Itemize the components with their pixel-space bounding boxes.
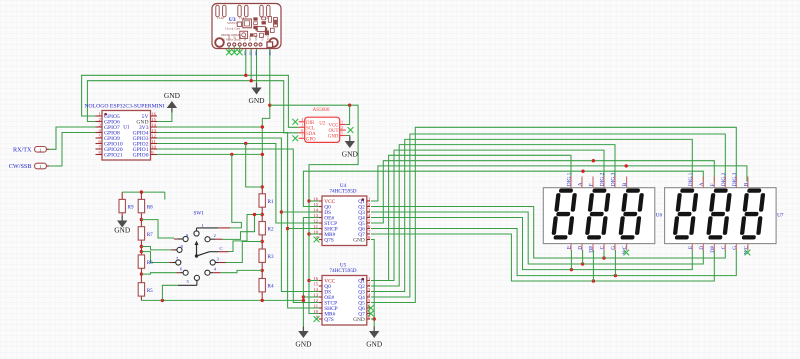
svg-text:R2: R2 — [268, 227, 274, 233]
svg-text:10: 10 — [151, 144, 156, 149]
svg-text:RX/TX: RX/TX — [13, 147, 32, 154]
svg-text:CLK0: CLK0 — [228, 34, 231, 41]
svg-text:12: 12 — [151, 133, 156, 138]
svg-text:NOLOGO ESP32C3-SUPERMINI: NOLOGO ESP32C3-SUPERMINI — [84, 104, 164, 110]
svg-text:GND: GND — [295, 340, 312, 349]
svg-text:12: 12 — [313, 298, 318, 303]
svg-text:SDA: SDA — [306, 132, 316, 137]
svg-text:SCL: SCL — [306, 126, 315, 131]
svg-text:D: D — [699, 246, 705, 250]
svg-text:DIG.2: DIG.2 — [600, 172, 606, 186]
svg-text:B: B — [744, 182, 750, 186]
svg-text:5: 5 — [341, 131, 343, 136]
svg-text:14: 14 — [313, 207, 318, 212]
svg-text:R5: R5 — [147, 288, 153, 294]
svg-text:G: G — [732, 246, 738, 250]
svg-text:R1: R1 — [268, 199, 274, 205]
svg-text:DIG.2: DIG.2 — [721, 172, 727, 186]
svg-text:SW1: SW1 — [194, 211, 205, 217]
svg-text:VCC: VCC — [329, 124, 339, 129]
svg-text:VCC: VCC — [262, 35, 265, 41]
svg-text:GND: GND — [248, 96, 265, 105]
svg-text:7: 7 — [301, 134, 303, 139]
svg-text:10: 10 — [313, 229, 318, 234]
svg-text:Si5351: Si5351 — [227, 21, 237, 25]
svg-text:14: 14 — [313, 287, 318, 292]
svg-text:D: D — [578, 246, 584, 250]
svg-text:15: 15 — [313, 202, 318, 207]
svg-text:F: F — [589, 183, 595, 186]
svg-text:OUT: OUT — [329, 129, 339, 134]
svg-text:DIG.1: DIG.1 — [688, 172, 694, 186]
svg-text:1: 1 — [39, 147, 41, 152]
svg-text:74HCT595D: 74HCT595D — [329, 268, 356, 274]
svg-text:DIR: DIR — [306, 121, 315, 126]
svg-text:GPIO0: GPIO0 — [133, 153, 149, 159]
svg-text:16: 16 — [313, 276, 318, 281]
svg-text:6: 6 — [301, 128, 303, 133]
svg-text:74HCT595D: 74HCT595D — [329, 188, 356, 194]
svg-text:CLK1: CLK1 — [233, 34, 236, 41]
svg-text:SCL: SCL — [244, 36, 247, 41]
svg-text:R6: R6 — [147, 260, 153, 266]
svg-text:10: 10 — [313, 309, 318, 314]
svg-text:F: F — [710, 183, 716, 186]
svg-text:R8: R8 — [147, 205, 153, 211]
svg-text:GND: GND — [353, 317, 365, 323]
svg-text:A: A — [578, 182, 584, 186]
svg-text:R4: R4 — [268, 284, 274, 290]
svg-text:3V3: 3V3 — [267, 36, 270, 41]
svg-text:U7: U7 — [777, 213, 784, 219]
svg-text:SDA: SDA — [269, 50, 272, 55]
svg-text:CLK0: CLK0 — [217, 17, 225, 20]
svg-text:GND: GND — [353, 238, 365, 244]
svg-text:GND: GND — [328, 135, 339, 140]
svg-text:C: C — [721, 245, 727, 249]
svg-text:11: 11 — [314, 303, 319, 308]
svg-text:GND: GND — [164, 91, 181, 100]
svg-text:1: 1 — [39, 164, 41, 169]
svg-text:13: 13 — [313, 213, 318, 218]
svg-text:DP: DP — [710, 246, 716, 253]
svg-text:11: 11 — [151, 139, 156, 144]
svg-text:3: 3 — [301, 123, 303, 128]
svg-text:DIG.3: DIG.3 — [611, 172, 617, 186]
svg-text:U1: U1 — [123, 125, 130, 131]
svg-text:12: 12 — [313, 218, 318, 223]
svg-text:GPO: GPO — [306, 137, 316, 142]
svg-text:16: 16 — [313, 196, 318, 201]
svg-text:SDA: SDA — [244, 50, 247, 55]
svg-text:DP: DP — [589, 246, 595, 253]
svg-text:C: C — [600, 245, 606, 249]
svg-text:1: 1 — [341, 120, 343, 125]
svg-text:DIG.3: DIG.3 — [732, 172, 738, 186]
svg-text:DIG.1: DIG.1 — [567, 172, 573, 186]
svg-text:GND: GND — [342, 150, 359, 159]
svg-text:Q7S: Q7S — [324, 238, 334, 244]
svg-text:2: 2 — [341, 125, 343, 130]
svg-text:R9: R9 — [128, 205, 134, 211]
svg-text:SDA: SDA — [255, 50, 258, 55]
svg-text:SDA: SDA — [249, 35, 252, 40]
svg-text:GPIO21: GPIO21 — [104, 153, 123, 159]
svg-text:U2: U2 — [319, 122, 326, 127]
svg-text:G: G — [611, 246, 617, 250]
svg-text:14: 14 — [151, 122, 156, 127]
svg-text:Clock Gen: Clock Gen — [225, 27, 240, 31]
svg-text:11: 11 — [314, 224, 319, 229]
svg-text:15: 15 — [313, 281, 318, 286]
svg-text:R7: R7 — [147, 232, 153, 238]
svg-text:13: 13 — [313, 292, 318, 297]
svg-text:GND: GND — [366, 340, 383, 349]
svg-text:CLK2: CLK2 — [239, 34, 242, 41]
svg-text:15: 15 — [151, 117, 156, 122]
svg-text:GND: GND — [255, 35, 258, 41]
svg-text:Q7S: Q7S — [324, 317, 334, 323]
svg-text:U6: U6 — [656, 213, 663, 219]
svg-text:R3: R3 — [268, 254, 274, 260]
svg-text:AS5600: AS5600 — [312, 107, 329, 113]
svg-text:A: A — [699, 182, 705, 186]
svg-text:B: B — [622, 182, 628, 186]
svg-text:13: 13 — [151, 128, 156, 133]
svg-text:CW/SSB: CW/SSB — [9, 163, 32, 170]
svg-text:GND: GND — [114, 226, 131, 235]
svg-text:16: 16 — [151, 111, 156, 116]
svg-text:SDA: SDA — [249, 50, 252, 55]
svg-text:C: C — [220, 246, 223, 251]
